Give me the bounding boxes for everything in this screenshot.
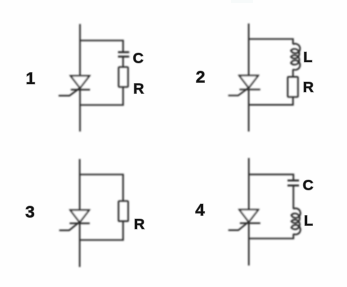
svg-text:C: C [303, 177, 314, 194]
thyristor SCR4 triangle [239, 210, 258, 222]
wire: top horizontal to branch [249, 174, 294, 180]
wire: top horizontal to branch [249, 39, 293, 44]
wire: cathode lead bottom [248, 90, 250, 132]
wire: bottom horizontal from branch [249, 97, 293, 105]
wire: bottom horizontal from branch [80, 221, 123, 240]
svg-text:C: C [133, 50, 144, 67]
thyristor SCR2 cathode bar [240, 89, 261, 91]
wire: anode lead top [79, 24, 81, 76]
svg-text:2: 2 [196, 68, 205, 87]
svg-text:1: 1 [26, 69, 35, 88]
wire: top horizontal to branch [80, 175, 123, 202]
svg-text:L: L [304, 213, 313, 230]
wire: cathode lead bottom [79, 90, 81, 132]
wire: bottom horizontal from branch [249, 234, 294, 239]
thyristor SCR1 triangle [71, 76, 90, 88]
capacitor C1 plates [118, 52, 129, 56]
wire: cathode lead bottom [248, 223, 250, 265]
thyristor SCR2 gate lead [228, 87, 250, 96]
svg-text:R: R [303, 79, 314, 96]
thyristor SCR1 gate lead [59, 87, 81, 96]
wire: anode lead top [248, 158, 250, 210]
svg-text:R: R [134, 216, 145, 233]
resistor R3 body [119, 201, 129, 221]
wire: capacitor to resistor [122, 57, 124, 67]
wire: bottom horizontal from snubber branch [80, 87, 123, 105]
resistor R1 body [119, 67, 129, 87]
svg-text:4: 4 [195, 201, 205, 220]
wire: inductor to resistor [292, 69, 294, 77]
faint screen artifact top center [231, 0, 253, 3]
thyristor SCR1 cathode bar [71, 89, 90, 91]
wire: capacitor to inductor [292, 186, 294, 209]
thyristor SCR3 cathode bar [70, 222, 90, 224]
inductor L4 coil [291, 208, 300, 234]
svg-text:3: 3 [25, 203, 34, 222]
thyristor SCR3 triangle [70, 210, 89, 222]
inductor L1 coil [291, 44, 300, 70]
thyristor SCR3 gate lead [59, 221, 80, 230]
wire: top horizontal to snubber branch [80, 41, 123, 52]
svg-text:L: L [303, 49, 312, 66]
wire: anode lead top [79, 159, 81, 210]
svg-text:R: R [133, 81, 144, 98]
wire: cathode lead bottom [79, 223, 81, 267]
resistor R2 body [288, 77, 298, 97]
thyristor SCR2 triangle [239, 76, 258, 88]
thyristor SCR4 cathode bar [240, 222, 260, 224]
capacitor C4 plates [288, 181, 300, 186]
thyristor SCR4 gate lead [228, 221, 250, 230]
wire: anode lead top [248, 24, 250, 76]
